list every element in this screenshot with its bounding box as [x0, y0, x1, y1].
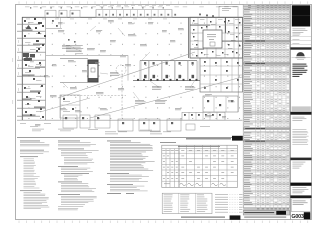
schedule totals row [243, 208, 290, 211]
plan right wall [237, 17, 239, 112]
consultant rule lines [290, 36, 311, 38]
upper-left rooms [46, 27, 62, 29]
notes column 1 [20, 140, 40, 143]
top exterior stall row [45, 10, 56, 17]
sheet number black box [304, 212, 311, 219]
architect address lines [292, 28, 305, 31]
dimension text row above plan [25, 6, 30, 9]
dashed egress horizontal [60, 95, 126, 97]
occupancy load label [160, 141, 176, 144]
left wing rooms [45, 17, 47, 120]
column grid dots [28, 23, 29, 24]
svg-text:G003: G003 [291, 214, 304, 220]
bottom title bar text [181, 217, 225, 218]
tick marks left edge [12, 58, 14, 62]
key plan grey box [292, 106, 311, 111]
sheet title box [291, 199, 311, 212]
schedule title black box [276, 211, 286, 215]
right core rooms lower [200, 58, 243, 92]
egress schedule table [243, 5, 290, 208]
project info black bar [290, 183, 311, 186]
plan lower edge wall [17, 119, 243, 121]
right core rooms upper [190, 17, 243, 58]
fold tick marks top edge [18, 1, 20, 3]
detail callout circle [116, 65, 126, 75]
sheet title black bar [290, 195, 311, 198]
notes column 2 [58, 140, 80, 143]
left dimension marks outside plan [18, 40, 20, 43]
egress diagonal 1 [58, 52, 195, 98]
plan title bar rule [17, 136, 243, 138]
issue lines [292, 116, 304, 119]
bottom stall group [63, 115, 77, 128]
plan title black box [232, 136, 243, 141]
plan annotation clusters [62, 44, 70, 47]
revisions black bar [290, 158, 311, 161]
center-left corridor wall [46, 54, 128, 56]
fold tick marks bottom edge [18, 221, 20, 223]
notes column 3 [107, 140, 131, 143]
egress diagonal 2 [90, 77, 242, 118]
lower-left room block [60, 95, 80, 118]
project name block [292, 64, 306, 65]
top-left corner room cluster [34, 18, 36, 20]
plan title text [186, 138, 231, 139]
stair core left-center [88, 60, 98, 82]
bottom title black box [230, 215, 241, 219]
plan outer wall left [21, 17, 23, 121]
legend box [162, 193, 212, 213]
central unit band [140, 60, 197, 62]
egress diagonal 3 [40, 98, 90, 112]
grid bubble marks above plan [30, 7, 31, 8]
plan outer wall top [22, 16, 243, 18]
project info lines [292, 186, 306, 189]
logo band black bar [290, 47, 311, 49]
issue black bar [290, 112, 311, 115]
leader lines [70, 46, 82, 52]
dome logo [296, 52, 304, 56]
revision lines [292, 161, 305, 164]
title block left border [289, 5, 291, 220]
title block top black box [292, 5, 310, 26]
dotted leader notes [215, 193, 228, 196]
scale and date text [105, 131, 116, 134]
occupancy table [162, 145, 238, 187]
dashed egress vertical [121, 70, 123, 118]
schedule caption text [244, 216, 286, 219]
schedule title band [243, 211, 290, 215]
copyright paragraph [292, 128, 306, 131]
